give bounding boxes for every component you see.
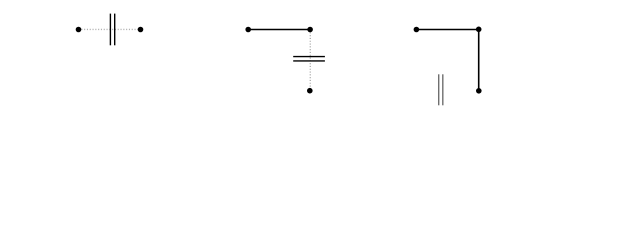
capacitor C1: [110, 14, 114, 46]
node C2: [476, 27, 482, 33]
wire (solid, node C2 to node C3): [478, 30, 480, 91]
wire (solid, node B1 to node B2): [248, 29, 310, 31]
node A2: [138, 27, 144, 33]
node B2: [307, 27, 313, 33]
wire (dotted, node B2 to node B3): [309, 30, 311, 91]
wire (dotted, node A1 to node A2): [79, 28, 141, 30]
node C1: [414, 27, 420, 33]
node B1: [245, 27, 251, 33]
node C3: [476, 88, 482, 94]
capacitor C3 (unplaced, gray): [439, 74, 443, 105]
node B3: [307, 88, 313, 94]
node A1: [76, 27, 82, 33]
capacitor C2: [293, 57, 325, 61]
wire (solid, node C1 to node C2): [416, 29, 478, 31]
